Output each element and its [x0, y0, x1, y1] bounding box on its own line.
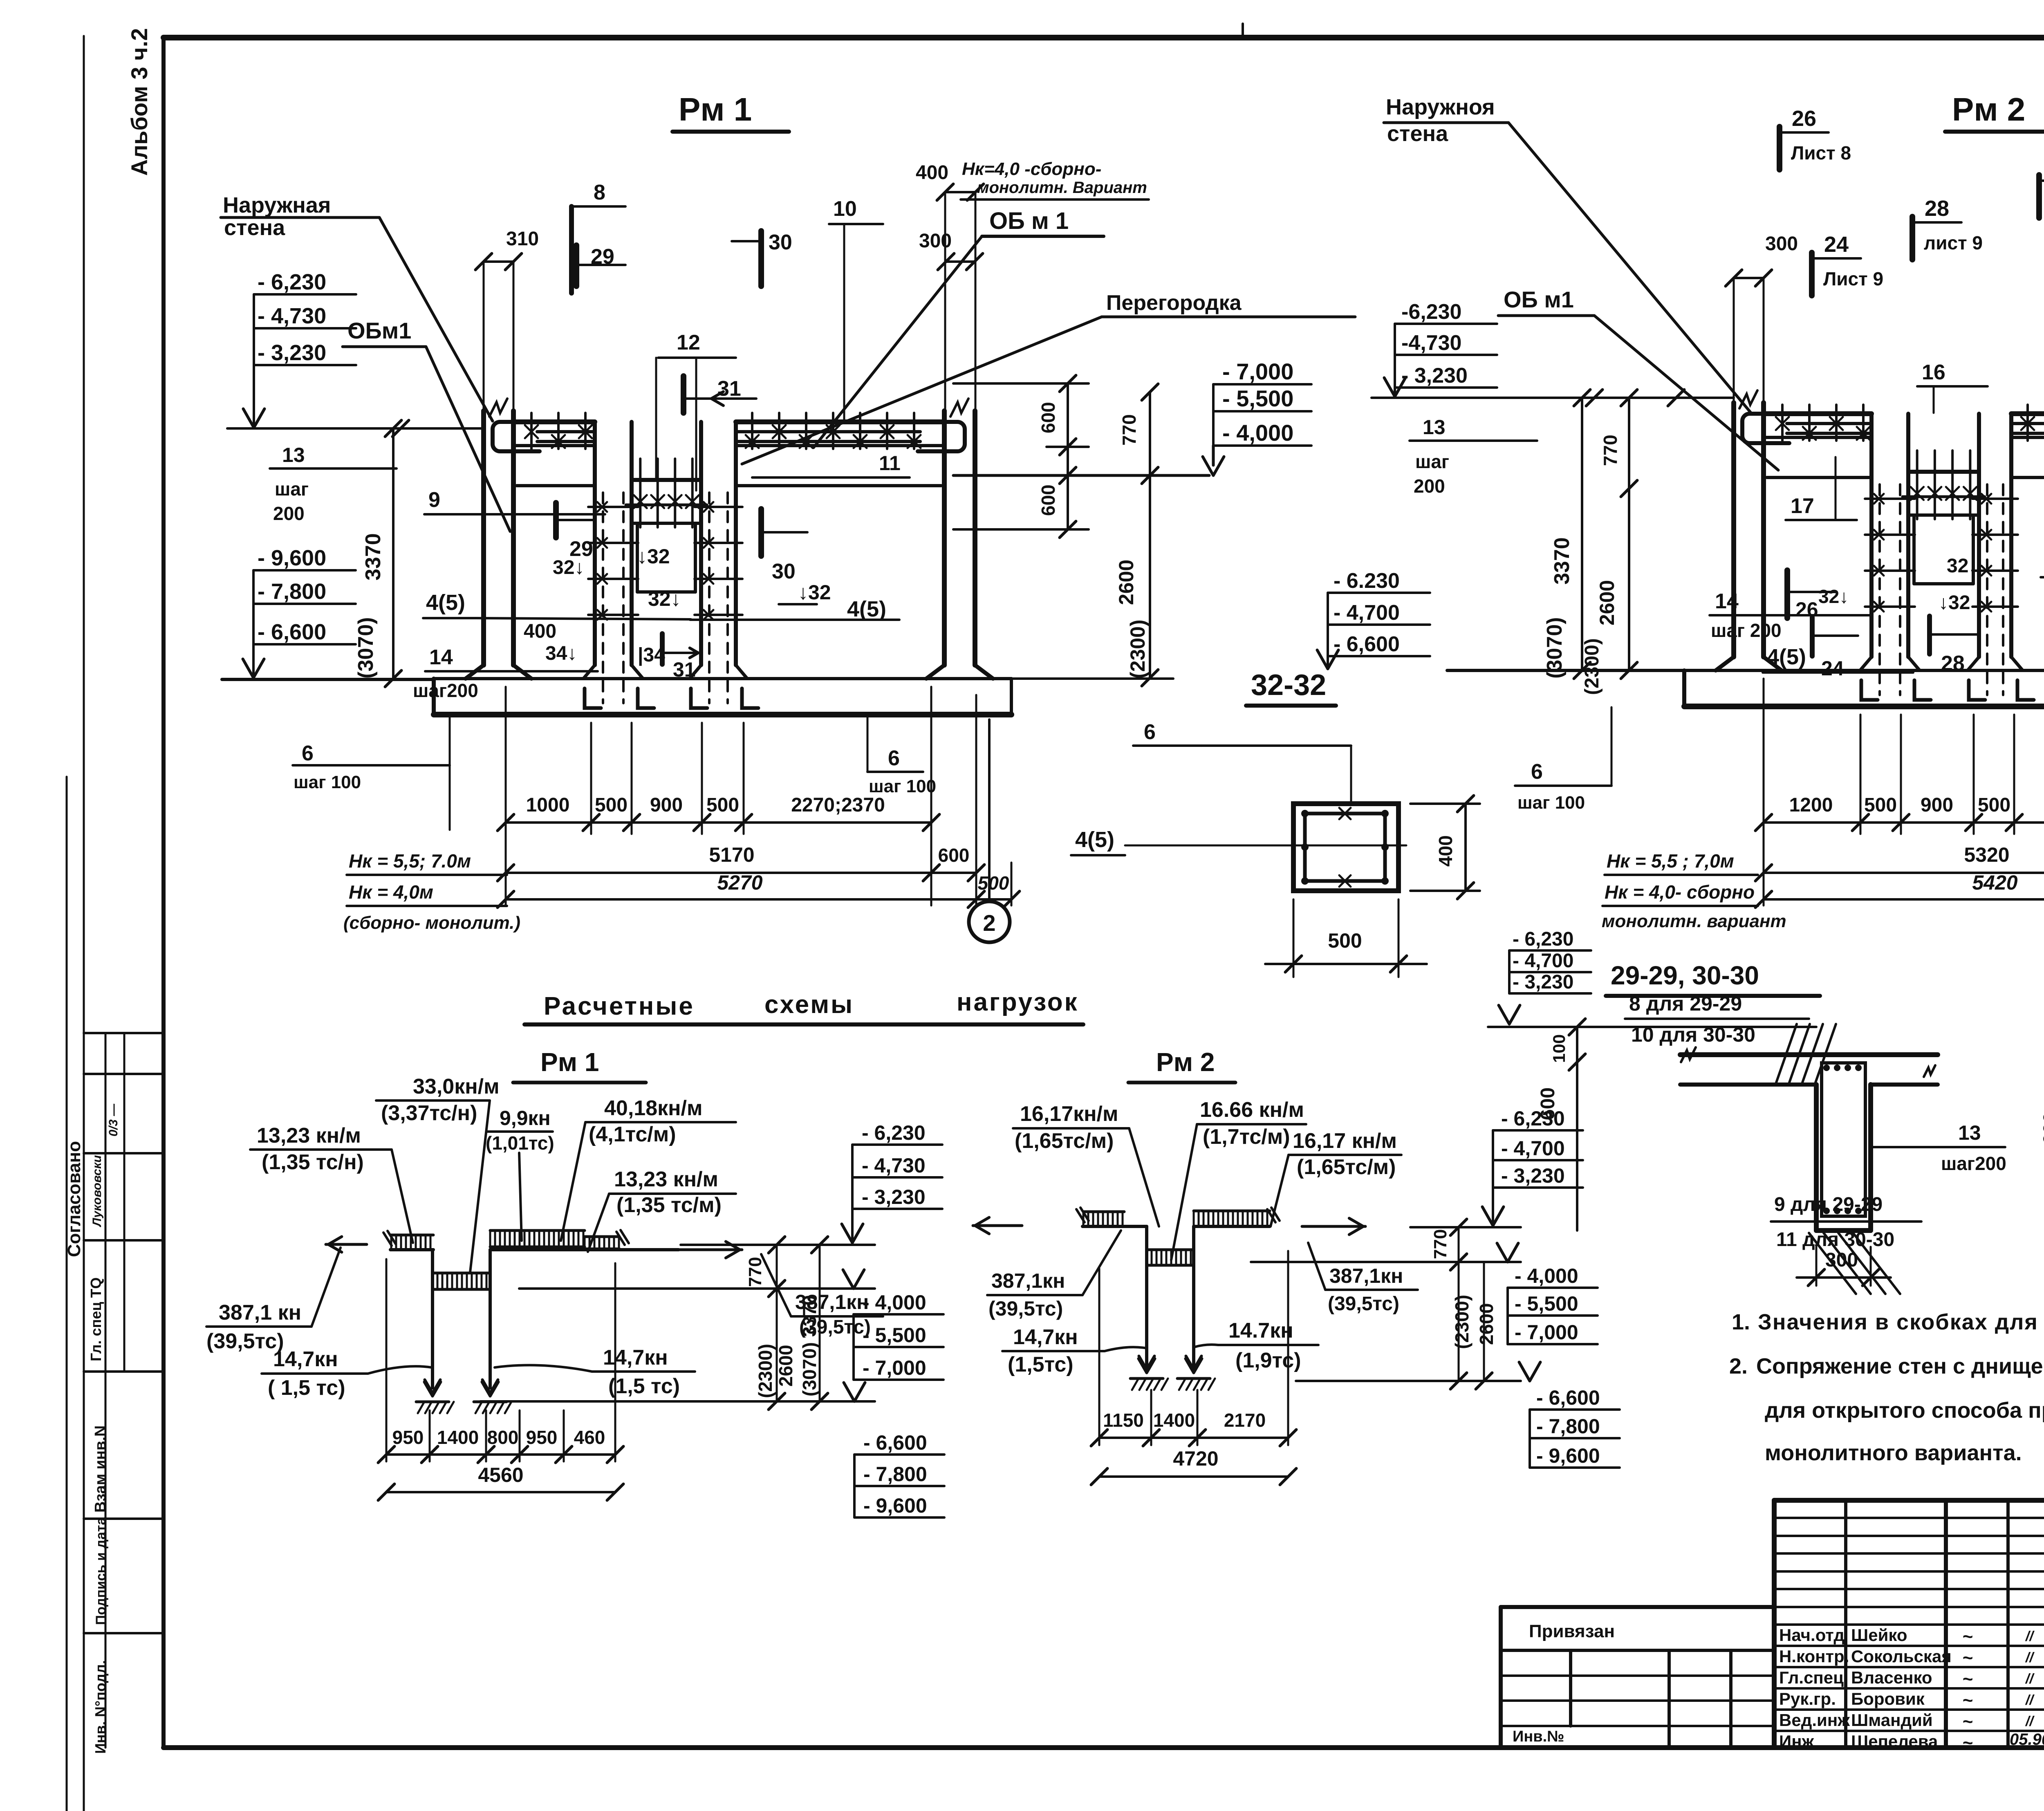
- svg-text:- 6,600: - 6,600: [258, 620, 326, 644]
- svg-text:34↓: 34↓: [545, 643, 577, 664]
- svg-text:24: 24: [1824, 232, 1849, 257]
- svg-text://: //: [2025, 1671, 2035, 1687]
- svg-text:монолитн. Вариант: монолитн. Вариант: [977, 179, 1147, 197]
- svg-text:- 3,230: - 3,230: [258, 341, 326, 365]
- svg-text:Боровик: Боровик: [1851, 1689, 1925, 1708]
- svg-text:Рм 1: Рм 1: [540, 1047, 599, 1077]
- svg-text:29: 29: [591, 245, 614, 269]
- svg-text:Альбом 3 ч.2: Альбом 3 ч.2: [126, 28, 152, 176]
- svg-text:9 для 29-29: 9 для 29-29: [1774, 1194, 1883, 1215]
- svg-text:- 4,700: - 4,700: [1513, 950, 1573, 972]
- svg-text:(2300): (2300): [1451, 1295, 1472, 1349]
- svg-text:32↓: 32↓: [1947, 555, 1978, 577]
- svg-text:- 4,730: - 4,730: [862, 1154, 926, 1177]
- svg-text:500: 500: [706, 794, 739, 816]
- svg-text:- 9,600: - 9,600: [1536, 1444, 1600, 1467]
- svg-text:16.66 кн/м: 16.66 кн/м: [1200, 1098, 1304, 1122]
- svg-text:310: 310: [506, 228, 539, 250]
- svg-text:31: 31: [717, 377, 741, 401]
- svg-text:500: 500: [978, 872, 1009, 894]
- svg-text:400: 400: [1435, 835, 1456, 867]
- svg-text:14: 14: [429, 646, 453, 669]
- svg-text:4(5): 4(5): [847, 597, 886, 621]
- svg-text:- 6,600: - 6,600: [863, 1431, 927, 1454]
- svg-text:(2300): (2300): [1126, 619, 1149, 679]
- svg-text:900: 900: [650, 794, 683, 816]
- svg-text:32↓: 32↓: [1818, 586, 1849, 607]
- svg-text:- 7,800: - 7,800: [863, 1463, 927, 1486]
- svg-text:200: 200: [273, 503, 305, 524]
- svg-text:(сборно- монолит.): (сборно- монолит.): [343, 913, 520, 933]
- svg-text:2: 2: [983, 910, 995, 936]
- svg-text:6: 6: [888, 746, 900, 770]
- svg-text:~: ~: [1962, 1648, 1973, 1668]
- svg-text:770: 770: [1118, 414, 1140, 446]
- svg-text:6: 6: [1144, 720, 1156, 744]
- svg-text:- 7,800: - 7,800: [1536, 1415, 1600, 1438]
- svg-text:770: 770: [1430, 1229, 1450, 1259]
- svg-text:Лукововски: Лукововски: [90, 1155, 104, 1227]
- svg-text:↓32: ↓32: [798, 581, 831, 604]
- svg-text:Значения в скобках дл: Значения в скобках для hк=-5,500 м .: [1758, 1310, 2044, 1334]
- svg-text:950: 950: [392, 1427, 424, 1448]
- svg-text:~: ~: [1962, 1690, 1973, 1710]
- svg-text:0/3 —: 0/3 —: [107, 1103, 120, 1136]
- svg-text://: //: [2025, 1650, 2035, 1665]
- svg-text:Н.контр.: Н.контр.: [1779, 1647, 1849, 1666]
- svg-text:387,1кн: 387,1кн: [991, 1269, 1065, 1292]
- svg-text:4560: 4560: [478, 1464, 523, 1486]
- svg-text:2600: 2600: [1476, 1303, 1497, 1345]
- svg-text:(39,5тс): (39,5тс): [988, 1297, 1063, 1320]
- svg-text:- 7,000: - 7,000: [1222, 359, 1293, 384]
- svg-text:2270;2370: 2270;2370: [791, 794, 885, 816]
- svg-text:3370: 3370: [361, 533, 385, 581]
- svg-text:Вед.инж: Вед.инж: [1779, 1710, 1850, 1730]
- svg-text:33,0кн/м: 33,0кн/м: [413, 1075, 500, 1098]
- svg-text:Лист 9: Лист 9: [1823, 268, 1883, 289]
- svg-text:28: 28: [1925, 196, 1949, 221]
- svg-text:(1,35 тс/м): (1,35 тс/м): [616, 1193, 722, 1217]
- svg-text:950: 950: [526, 1427, 558, 1448]
- svg-text:(1,7тс/м): (1,7тс/м): [1203, 1125, 1290, 1149]
- svg-text:шаг 100: шаг 100: [294, 772, 361, 792]
- svg-text:387,1 кн: 387,1 кн: [219, 1301, 301, 1325]
- svg-text:-6,230: -6,230: [1401, 300, 1461, 324]
- svg-text:- 4,000: - 4,000: [1222, 420, 1293, 446]
- svg-text:13: 13: [282, 444, 305, 466]
- svg-text:32-32: 32-32: [1251, 669, 1326, 702]
- svg-text:Лист 8: Лист 8: [1791, 142, 1851, 164]
- svg-text:4(5): 4(5): [426, 590, 465, 615]
- svg-text:Шейко: Шейко: [1851, 1625, 1907, 1645]
- svg-text:~: ~: [1962, 1712, 1973, 1732]
- svg-text:5320: 5320: [1964, 843, 2009, 866]
- svg-text:- 4,000: - 4,000: [1515, 1264, 1578, 1287]
- svg-text:- 7,000: - 7,000: [1515, 1321, 1578, 1344]
- svg-text:Гл. спец ТQ: Гл. спец ТQ: [87, 1278, 104, 1361]
- svg-text:31: 31: [673, 658, 696, 681]
- svg-text:Шепелева: Шепелева: [1851, 1732, 1938, 1751]
- svg-text:29-29, 30-30: 29-29, 30-30: [1611, 961, 1759, 990]
- svg-text:Рук.гр.: Рук.гр.: [1779, 1689, 1836, 1708]
- svg-text:шаг200: шаг200: [413, 680, 478, 701]
- svg-text:(2300): (2300): [1581, 638, 1603, 695]
- svg-text:- 3,230: - 3,230: [1401, 364, 1468, 388]
- svg-text:шаг 100: шаг 100: [1517, 793, 1585, 813]
- svg-text:26: 26: [1795, 598, 1818, 621]
- svg-text:- 5,500: - 5,500: [1515, 1292, 1578, 1315]
- svg-text:16,17кн/м: 16,17кн/м: [1020, 1102, 1118, 1126]
- svg-text:300: 300: [1825, 1249, 1858, 1271]
- svg-text:(2300): (2300): [755, 1344, 776, 1398]
- svg-text:13: 13: [1423, 416, 1446, 439]
- svg-text:- 5,500: - 5,500: [1222, 386, 1293, 411]
- svg-text:13,23 кн/м: 13,23 кн/м: [614, 1168, 718, 1191]
- svg-text:Рм 1: Рм 1: [679, 91, 752, 128]
- svg-text:Инж: Инж: [1779, 1732, 1815, 1751]
- svg-text:500: 500: [1978, 794, 2010, 816]
- svg-text:28: 28: [1941, 652, 1965, 675]
- svg-text:13,23 кн/м: 13,23 кн/м: [257, 1124, 361, 1148]
- svg-text:Hк = 5,5 ; 7,0м: Hк = 5,5 ; 7,0м: [1607, 850, 1734, 872]
- svg-text:Hк = 5,5; 7.0м: Hк = 5,5; 7.0м: [349, 850, 471, 872]
- svg-text:- 6,230: - 6,230: [862, 1121, 926, 1144]
- svg-text:монолитного варианта.: монолитного варианта.: [1765, 1441, 2022, 1465]
- svg-text:14,7кн: 14,7кн: [273, 1347, 338, 1371]
- svg-text:Hк = 4,0м: Hк = 4,0м: [349, 881, 433, 903]
- svg-text:2170: 2170: [1224, 1410, 1266, 1431]
- svg-text:(3,37тс/н): (3,37тс/н): [381, 1101, 477, 1125]
- svg-text:800: 800: [487, 1427, 519, 1448]
- svg-text:500: 500: [1328, 929, 1362, 952]
- svg-text:30: 30: [769, 231, 792, 254]
- svg-text:Инв. N°подл.: Инв. N°подл.: [92, 1660, 109, 1754]
- svg-text:40,18кн/м: 40,18кн/м: [604, 1096, 702, 1120]
- svg-text:200: 200: [1414, 475, 1445, 497]
- svg-text:Сокольская: Сокольская: [1851, 1647, 1952, 1666]
- svg-text:1.: 1.: [1732, 1310, 1750, 1334]
- svg-text:- 6,600: - 6,600: [1334, 632, 1400, 656]
- svg-text:- 3,230: - 3,230: [862, 1186, 926, 1208]
- svg-text:3370: 3370: [1550, 537, 1574, 585]
- svg-text:- 6,230: - 6,230: [1513, 928, 1573, 950]
- svg-text:770: 770: [1600, 435, 1621, 466]
- svg-text:- 5,500: - 5,500: [863, 1324, 926, 1347]
- svg-text:16: 16: [1922, 361, 1945, 384]
- svg-text:шаг 200: шаг 200: [1711, 620, 1782, 641]
- svg-text:шаг200: шаг200: [1941, 1153, 2006, 1174]
- svg-text:(1,35 тс/н): (1,35 тс/н): [262, 1150, 364, 1174]
- svg-text:Привязан: Привязан: [1529, 1621, 1615, 1641]
- svg-text:500: 500: [1864, 794, 1897, 816]
- svg-text:6: 6: [302, 742, 314, 765]
- svg-text:05.90: 05.90: [2010, 1730, 2044, 1748]
- svg-text:- 9,600: - 9,600: [863, 1494, 927, 1517]
- svg-text:100: 100: [1549, 1034, 1569, 1063]
- svg-text:1150: 1150: [1103, 1410, 1144, 1431]
- svg-text:460: 460: [574, 1427, 605, 1448]
- svg-text:Власенко: Власенко: [1851, 1668, 1932, 1687]
- svg-text:( 1,5 тс): ( 1,5 тс): [268, 1376, 345, 1400]
- svg-text:(39,5тс): (39,5тс): [1328, 1293, 1399, 1315]
- svg-text:2600: 2600: [775, 1345, 796, 1387]
- svg-text:Гл.спец: Гл.спец: [1779, 1668, 1844, 1687]
- svg-text:900: 900: [1921, 794, 1953, 816]
- svg-text:400: 400: [524, 621, 556, 642]
- svg-text:1000: 1000: [526, 794, 570, 816]
- svg-text:Сопряжение стен с: Сопряжение стен с днищем условно изображ…: [1756, 1354, 2044, 1378]
- svg-text:- 4,730: - 4,730: [258, 304, 326, 328]
- svg-text:Рм 2: Рм 2: [1156, 1047, 1215, 1077]
- svg-text:8 для 29-29: 8 для 29-29: [1629, 992, 1742, 1015]
- svg-text:1400: 1400: [1153, 1410, 1195, 1431]
- svg-text:Нач.отд: Нач.отд: [1779, 1625, 1845, 1645]
- svg-text:нагрузок: нагрузок: [957, 988, 1079, 1016]
- svg-text:5420: 5420: [1972, 871, 2017, 894]
- svg-text:1200: 1200: [1789, 794, 1833, 816]
- svg-text:Наружноя: Наружноя: [1386, 95, 1495, 119]
- svg-text:ОБ м1: ОБ м1: [1504, 287, 1574, 312]
- svg-text:26: 26: [1792, 106, 1816, 131]
- svg-text:2600: 2600: [1596, 580, 1618, 625]
- svg-text:- 3,230: - 3,230: [1501, 1164, 1565, 1187]
- svg-text:14,7кн: 14,7кн: [603, 1346, 668, 1369]
- svg-text:Hк = 4,0- сборно: Hк = 4,0- сборно: [1605, 881, 1755, 903]
- svg-text:11: 11: [879, 452, 901, 475]
- svg-text:14,7кн: 14,7кн: [1013, 1325, 1078, 1349]
- svg-text:Расчетные: Расчетные: [544, 992, 695, 1020]
- svg-text:ОБм1: ОБм1: [347, 318, 411, 343]
- svg-text:13: 13: [1958, 1121, 1981, 1144]
- svg-text:5170: 5170: [709, 843, 754, 866]
- svg-text:~: ~: [1962, 1733, 1973, 1753]
- svg-text:(39,5тс): (39,5тс): [206, 1329, 284, 1353]
- svg-text:600: 600: [1038, 484, 1059, 516]
- svg-text:300: 300: [919, 230, 952, 252]
- svg-text:шаг: шаг: [1415, 451, 1449, 472]
- svg-text:(3070) 3370: (3070) 3370: [799, 1295, 820, 1396]
- svg-text:24: 24: [1821, 657, 1844, 680]
- svg-text:шаг: шаг: [275, 478, 309, 500]
- svg-text:- 9,600: - 9,600: [258, 546, 326, 570]
- svg-text:(1,5 тс): (1,5 тс): [608, 1374, 680, 1398]
- svg-text:5270: 5270: [717, 871, 762, 894]
- svg-text:4(5): 4(5): [1767, 645, 1806, 669]
- svg-text:схемы: схемы: [764, 991, 854, 1019]
- svg-text:16,17 кн/м: 16,17 кн/м: [1293, 1129, 1397, 1153]
- svg-text:(1,5тс): (1,5тс): [1008, 1353, 1074, 1376]
- svg-text:9,9кн: 9,9кн: [500, 1107, 551, 1130]
- svg-text:(3070): (3070): [354, 617, 378, 679]
- svg-text:(1,9тс): (1,9тс): [1235, 1349, 1301, 1372]
- svg-text:4720: 4720: [1173, 1447, 1218, 1470]
- svg-text:(1,65тс/м): (1,65тс/м): [1015, 1129, 1114, 1153]
- svg-text:11 для 30-30: 11 для 30-30: [1776, 1229, 1894, 1251]
- svg-text:32↓: 32↓: [553, 557, 584, 578]
- svg-text:14.7кн: 14.7кн: [1228, 1319, 1293, 1343]
- svg-text:Согласовано: Согласовано: [64, 1141, 84, 1257]
- svg-text:Шмандий: Шмандий: [1851, 1710, 1933, 1730]
- svg-text:32↓: 32↓: [648, 587, 681, 610]
- svg-text:387,1кн: 387,1кн: [1329, 1264, 1403, 1287]
- svg-text:Рм 2: Рм 2: [1952, 91, 2025, 128]
- svg-text:стена: стена: [224, 215, 285, 240]
- svg-text:- 4,700: - 4,700: [1501, 1137, 1565, 1160]
- svg-text:↓32: ↓32: [1939, 592, 1970, 614]
- svg-text://: //: [2025, 1714, 2035, 1729]
- svg-text:Наружная: Наружная: [223, 193, 331, 217]
- svg-text:(1,01тс): (1,01тс): [486, 1132, 554, 1154]
- svg-text:2.: 2.: [1729, 1354, 1748, 1378]
- svg-text:Подпись и дата: Подпись и дата: [93, 1517, 109, 1625]
- svg-text:600: 600: [938, 845, 970, 866]
- svg-text:стена: стена: [1387, 121, 1448, 146]
- svg-text:для открытого способа: для открытого способа производства работ: [1765, 1398, 2044, 1423]
- svg-text:- 4,700: - 4,700: [1334, 601, 1400, 625]
- svg-text:300: 300: [1765, 233, 1798, 255]
- svg-text:шаг 100: шаг 100: [869, 776, 936, 796]
- svg-text:17: 17: [1791, 494, 1814, 518]
- svg-text:4(5): 4(5): [1075, 827, 1114, 852]
- svg-text://: //: [2025, 1692, 2035, 1708]
- svg-text:770: 770: [745, 1257, 765, 1287]
- svg-text:9: 9: [428, 488, 440, 512]
- svg-text:- 4,000: - 4,000: [863, 1291, 926, 1314]
- svg-text:- 7,000: - 7,000: [863, 1356, 926, 1379]
- svg-text:10: 10: [833, 197, 857, 221]
- svg-text:(1,65тс/м): (1,65тс/м): [1297, 1155, 1396, 1179]
- svg-text:400: 400: [916, 162, 948, 184]
- svg-text:30: 30: [772, 560, 796, 583]
- svg-text:Инв.№: Инв.№: [1513, 1728, 1564, 1745]
- svg-text:14: 14: [1715, 589, 1739, 613]
- svg-text:12: 12: [677, 331, 700, 354]
- svg-text:500: 500: [595, 794, 628, 816]
- svg-text:-4,730: -4,730: [1401, 331, 1461, 355]
- svg-text:Взам инв.N: Взам инв.N: [92, 1425, 109, 1513]
- svg-text:- 6,230: - 6,230: [1501, 1107, 1565, 1130]
- svg-text:Перегородка: Перегородка: [1106, 291, 1242, 315]
- svg-text:2600: 2600: [1115, 560, 1138, 605]
- svg-text:ОБ м 1: ОБ м 1: [989, 208, 1069, 234]
- svg-text:(4,1тс/м): (4,1тс/м): [589, 1123, 676, 1146]
- svg-text:↓32: ↓32: [637, 545, 670, 568]
- svg-text:Hк=4,0 -сборно-: Hк=4,0 -сборно-: [962, 159, 1101, 179]
- svg-text:- 3,230: - 3,230: [1513, 971, 1573, 993]
- svg-text:8: 8: [594, 181, 605, 204]
- svg-text:- 6,230: - 6,230: [258, 270, 326, 294]
- svg-text:лист 9: лист 9: [1924, 232, 1983, 253]
- svg-text:- 6.230: - 6.230: [1334, 569, 1400, 593]
- svg-text:- 6,600: - 6,600: [1536, 1386, 1600, 1409]
- svg-text:- 7,800: - 7,800: [258, 579, 326, 604]
- svg-text:600: 600: [1038, 402, 1059, 433]
- svg-text:~: ~: [1962, 1627, 1973, 1647]
- svg-text:~: ~: [1962, 1669, 1973, 1689]
- svg-text:монолитн. вариант: монолитн. вариант: [1602, 911, 1786, 931]
- svg-text:1400: 1400: [437, 1427, 479, 1448]
- svg-text:6: 6: [1531, 760, 1543, 784]
- svg-text:600: 600: [2040, 1112, 2044, 1145]
- svg-text://: //: [2025, 1629, 2035, 1644]
